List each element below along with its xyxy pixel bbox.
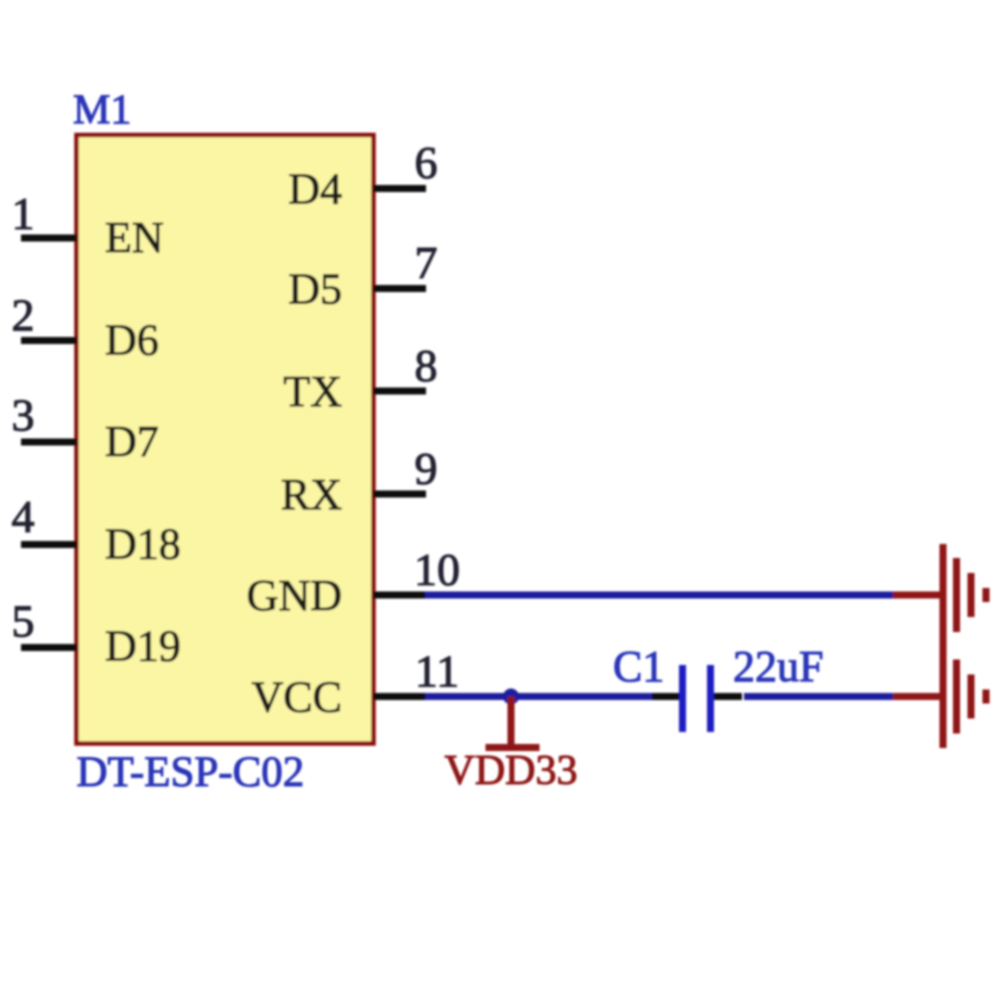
svg-text:M1: M1 bbox=[73, 88, 131, 134]
power flag VDD33 bbox=[445, 697, 578, 795]
svg-text:7: 7 bbox=[415, 237, 438, 288]
ground symbol (GND net, top) bbox=[893, 544, 986, 646]
value 22uF bbox=[733, 642, 823, 691]
designator C1 bbox=[613, 642, 664, 691]
svg-text:D4: D4 bbox=[288, 165, 342, 214]
svg-text:VDD33: VDD33 bbox=[445, 748, 578, 794]
capacitor C1 bbox=[652, 665, 742, 732]
wire VCC net (pin 11 to C1 left) bbox=[425, 693, 656, 700]
svg-text:11: 11 bbox=[415, 646, 459, 697]
pin 6 (D4) of M1 bbox=[288, 137, 437, 214]
pin 10 (GND) of M1 bbox=[247, 544, 460, 620]
svg-text:5: 5 bbox=[12, 596, 35, 647]
svg-text:D7: D7 bbox=[105, 417, 159, 466]
pin 11 (VCC) of M1 bbox=[252, 646, 460, 722]
svg-text:C1: C1 bbox=[613, 642, 664, 691]
pin 5 (D19) of M1 bbox=[12, 596, 181, 671]
svg-text:D19: D19 bbox=[105, 622, 181, 671]
designator M1 bbox=[73, 88, 131, 134]
pin 3 (D7) of M1 bbox=[12, 390, 159, 467]
part name DT-ESP-C02 bbox=[77, 749, 305, 796]
svg-text:TX: TX bbox=[283, 367, 342, 416]
svg-text:2: 2 bbox=[12, 290, 35, 341]
svg-text:22uF: 22uF bbox=[733, 642, 823, 691]
svg-text:D18: D18 bbox=[105, 520, 181, 569]
svg-text:EN: EN bbox=[105, 213, 164, 262]
svg-text:D6: D6 bbox=[105, 316, 159, 365]
module M1 body (DT-ESP-C02) bbox=[77, 135, 374, 744]
svg-text:RX: RX bbox=[281, 470, 342, 519]
svg-text:VCC: VCC bbox=[252, 673, 342, 722]
svg-text:DT-ESP-C02: DT-ESP-C02 bbox=[77, 749, 305, 796]
svg-text:6: 6 bbox=[415, 137, 438, 188]
pin 8 (TX) of M1 bbox=[283, 340, 437, 416]
junction dot on VCC net bbox=[503, 689, 519, 705]
pin 2 (D6) of M1 bbox=[12, 290, 159, 365]
pin 4 (D18) of M1 bbox=[12, 491, 181, 569]
wire GND net (pin 10 to ground) bbox=[425, 592, 894, 599]
pin 1 (EN) of M1 bbox=[12, 188, 164, 262]
pin 9 (RX) of M1 bbox=[281, 443, 438, 519]
ground symbol (VCC return, bottom) bbox=[893, 646, 986, 748]
svg-text:3: 3 bbox=[12, 390, 35, 441]
svg-text:9: 9 bbox=[415, 443, 438, 494]
wire VCC net (C1 right to ground) bbox=[744, 693, 894, 700]
svg-text:8: 8 bbox=[415, 340, 438, 391]
svg-text:1: 1 bbox=[12, 188, 35, 239]
svg-text:GND: GND bbox=[247, 571, 342, 620]
pin 7 (D5) of M1 bbox=[288, 237, 437, 314]
svg-text:4: 4 bbox=[12, 491, 35, 542]
svg-text:D5: D5 bbox=[288, 265, 342, 314]
svg-text:10: 10 bbox=[414, 544, 460, 595]
